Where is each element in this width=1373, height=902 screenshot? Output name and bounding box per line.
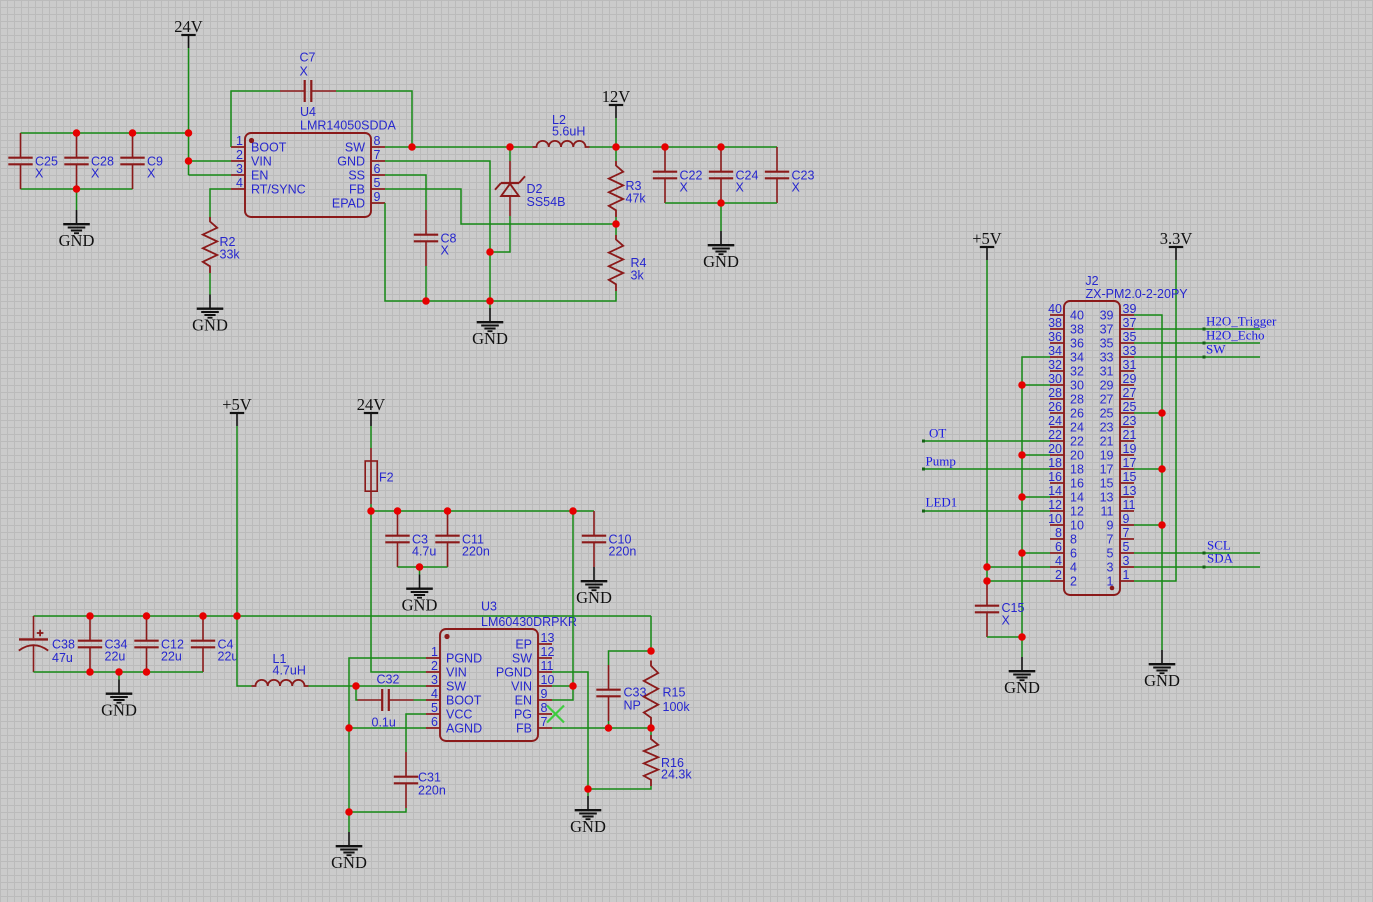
wire 12V to R3 bbox=[615, 147, 617, 161]
svg-text:+5V: +5V bbox=[222, 395, 252, 414]
svg-text:SW: SW bbox=[446, 680, 466, 694]
U4 pin 9 EPAD bbox=[371, 202, 385, 204]
J2 pin 23 bbox=[1120, 426, 1134, 428]
svg-text:9: 9 bbox=[541, 687, 548, 701]
op-amp U4 LMR14050SDDA body bbox=[245, 133, 371, 217]
capacitor C23 bbox=[765, 147, 789, 203]
J2 pin 40 bbox=[1050, 314, 1064, 316]
svg-text:SDA: SDA bbox=[1207, 551, 1234, 566]
svg-text:8: 8 bbox=[374, 134, 381, 148]
svg-text:10: 10 bbox=[541, 673, 555, 687]
wire FB net bbox=[552, 727, 651, 729]
U4 pin 2 VIN bbox=[231, 160, 245, 162]
svg-text:Pump: Pump bbox=[926, 454, 956, 469]
svg-text:PG: PG bbox=[514, 708, 532, 722]
wire L2 right lead bbox=[590, 146, 617, 148]
wire EN/VIN to 24V rail bbox=[552, 511, 573, 700]
svg-text:6: 6 bbox=[1055, 540, 1062, 554]
inductor L1 bbox=[252, 680, 309, 686]
capacitor C34 bbox=[78, 616, 102, 672]
wire +5V rail bbox=[34, 615, 652, 617]
svg-text:47u: 47u bbox=[52, 651, 73, 665]
J2 pin 24 bbox=[1050, 426, 1064, 428]
wire C7 left bbox=[231, 91, 280, 147]
svg-text:D2: D2 bbox=[527, 182, 543, 196]
junction: junction C4 top bbox=[199, 612, 207, 620]
svg-text:9: 9 bbox=[1123, 512, 1130, 526]
junction: junction C31 gnd bbox=[345, 808, 353, 816]
svg-text:11: 11 bbox=[541, 659, 554, 673]
svg-text:GND: GND bbox=[192, 316, 228, 335]
svg-text:X: X bbox=[300, 65, 309, 79]
resistor R3 bbox=[609, 161, 623, 217]
resistor R2 bbox=[203, 217, 217, 273]
junction: junction C12 top bbox=[143, 612, 151, 620]
J2 pin 3 bbox=[1120, 566, 1134, 568]
svg-text:25: 25 bbox=[1123, 400, 1137, 414]
J2 pin 29 bbox=[1120, 384, 1134, 386]
J2 pin 10 bbox=[1050, 524, 1064, 526]
svg-text:C32: C32 bbox=[377, 673, 400, 687]
svg-text:33: 33 bbox=[1123, 344, 1137, 358]
capacitor C4 bbox=[191, 616, 215, 672]
svg-text:7: 7 bbox=[374, 148, 381, 162]
junction: junction VIN tap bbox=[185, 157, 193, 165]
svg-text:VIN: VIN bbox=[511, 680, 532, 694]
J2 pin 7 bbox=[1120, 538, 1134, 540]
svg-text:17: 17 bbox=[1100, 463, 1114, 477]
wire 3.3V to pin1 bbox=[1134, 260, 1176, 581]
inductor L2 body bbox=[533, 141, 590, 147]
junction: junction VIN rail left bbox=[367, 507, 375, 515]
svg-text:X: X bbox=[736, 181, 745, 195]
svg-text:4: 4 bbox=[1070, 561, 1077, 575]
svg-text:33k: 33k bbox=[220, 248, 241, 262]
svg-text:22u: 22u bbox=[161, 650, 182, 664]
J2 pin 1 bbox=[1120, 580, 1134, 582]
svg-text:21: 21 bbox=[1100, 435, 1114, 449]
wire 12V output rail bbox=[616, 146, 777, 148]
wire output cap bottom rail bbox=[665, 202, 777, 204]
svg-text:12: 12 bbox=[1048, 498, 1062, 512]
wire C10 top bbox=[593, 510, 595, 512]
svg-text:5.6uH: 5.6uH bbox=[552, 125, 585, 139]
capacitor C25 bbox=[8, 133, 32, 189]
svg-text:BOOT: BOOT bbox=[446, 694, 482, 708]
svg-text:X: X bbox=[1002, 614, 1011, 628]
J2 pin 32 bbox=[1050, 370, 1064, 372]
wire U4 GND pin to rail bbox=[385, 161, 490, 301]
ground under C28 bbox=[63, 210, 90, 233]
J2 pin 36 bbox=[1050, 342, 1064, 344]
svg-text:SW: SW bbox=[345, 141, 365, 155]
wire AGND to net bbox=[349, 727, 426, 729]
svg-text:PGND: PGND bbox=[496, 666, 532, 680]
svg-text:30: 30 bbox=[1048, 372, 1062, 386]
wire R3 to FB node bbox=[615, 217, 617, 224]
svg-text:22: 22 bbox=[1070, 435, 1084, 449]
junction: junction output GND tap bbox=[717, 199, 725, 207]
wire C32 to BOOT bbox=[414, 699, 427, 701]
svg-text:36: 36 bbox=[1070, 337, 1084, 351]
U4 pin 3 EN bbox=[231, 174, 245, 176]
svg-text:30: 30 bbox=[1070, 379, 1084, 393]
wire J2 pin20 bbox=[1022, 454, 1050, 456]
wire FB to divider bbox=[385, 189, 616, 224]
svg-text:17: 17 bbox=[1123, 456, 1137, 470]
svg-text:38: 38 bbox=[1048, 316, 1062, 330]
svg-text:4: 4 bbox=[431, 687, 438, 701]
junction: junction pin14 bbox=[1018, 493, 1026, 501]
J2 pin 6 bbox=[1050, 552, 1064, 554]
wire net SW bbox=[1134, 356, 1260, 358]
svg-text:3k: 3k bbox=[631, 269, 645, 283]
junction: U3 pin1 marker bbox=[444, 634, 449, 639]
U3 pin 4 BOOT bbox=[426, 699, 440, 701]
junction: junction pin17 bbox=[1158, 465, 1166, 473]
svg-text:GND: GND bbox=[703, 252, 739, 271]
U3 pin 11 PGND bbox=[538, 671, 552, 673]
capacitor C31 bbox=[394, 752, 418, 808]
junction: J2 pin1 marker bbox=[1110, 586, 1115, 591]
svg-text:22u: 22u bbox=[105, 650, 126, 664]
svg-text:24V: 24V bbox=[174, 17, 203, 36]
J2 pin 18 bbox=[1050, 468, 1064, 470]
svg-text:35: 35 bbox=[1123, 330, 1137, 344]
wire 12V stem bbox=[615, 118, 617, 147]
junction: junction +5V tap bbox=[233, 612, 241, 620]
wire VIN to U4 pin2 bbox=[189, 160, 232, 162]
wire net SCL bbox=[1134, 552, 1260, 554]
svg-text:6: 6 bbox=[1070, 547, 1077, 561]
svg-text:F2: F2 bbox=[379, 471, 394, 485]
ground under C10 bbox=[581, 567, 608, 590]
wire U3 VIN right bbox=[552, 685, 573, 687]
wire VIN to U3 pin2 bbox=[371, 511, 426, 672]
svg-text:31: 31 bbox=[1123, 358, 1137, 372]
svg-text:18: 18 bbox=[1070, 463, 1084, 477]
J2 pin 35 bbox=[1120, 342, 1134, 344]
junction: junction R15 top/C33 bbox=[647, 647, 655, 655]
wire SS to C8 bbox=[385, 175, 426, 210]
junction: junction C22 top bbox=[661, 143, 669, 151]
junction: junction C8 bottom bbox=[422, 297, 430, 305]
wire J2 pin6 bbox=[1022, 552, 1050, 554]
wire J2 pin34 to gnd vertical bbox=[1022, 357, 1050, 637]
junction: junction AGND bbox=[345, 724, 353, 732]
svg-text:22u: 22u bbox=[218, 650, 239, 664]
wire J2 pin14 bbox=[1022, 496, 1050, 498]
svg-text:13: 13 bbox=[541, 631, 555, 645]
svg-text:C31: C31 bbox=[418, 771, 441, 785]
svg-text:15: 15 bbox=[1100, 477, 1114, 491]
junction: junction pin20 bbox=[1018, 451, 1026, 459]
svg-text:VIN: VIN bbox=[251, 155, 272, 169]
svg-text:9: 9 bbox=[1107, 519, 1114, 533]
svg-text:16: 16 bbox=[1048, 470, 1062, 484]
svg-text:X: X bbox=[680, 181, 689, 195]
op-amp U3 LM60430DRPKR body bbox=[440, 629, 538, 741]
junction: junction C9 top bbox=[129, 129, 137, 137]
J2 pin 28 bbox=[1050, 398, 1064, 400]
svg-text:5: 5 bbox=[1107, 547, 1114, 561]
J2 pin 30 bbox=[1050, 384, 1064, 386]
svg-text:14: 14 bbox=[1070, 491, 1084, 505]
svg-text:6: 6 bbox=[374, 162, 381, 176]
wire C33 top bbox=[609, 651, 652, 665]
U3 pin 7 FB bbox=[538, 727, 552, 729]
J2 pin 13 bbox=[1120, 496, 1134, 498]
junction: junction pin30 bbox=[1018, 381, 1026, 389]
U3 pin 10 VIN bbox=[538, 685, 552, 687]
svg-text:SS: SS bbox=[348, 169, 365, 183]
capacitor C28 bbox=[64, 133, 88, 189]
svg-text:23: 23 bbox=[1100, 421, 1114, 435]
svg-text:27: 27 bbox=[1100, 393, 1114, 407]
J2 pin 21 bbox=[1120, 440, 1134, 442]
junction: junction ground R16 bbox=[584, 785, 592, 793]
power flag +5V (bottom) bbox=[230, 413, 244, 426]
wire net H2O_Echo bbox=[1134, 342, 1260, 344]
J2 pin 17 bbox=[1120, 468, 1134, 470]
J2 pin 26 bbox=[1050, 412, 1064, 414]
svg-text:LED1: LED1 bbox=[926, 495, 958, 510]
wire C3/C11 ground rail bbox=[398, 566, 448, 568]
resistor R15 bbox=[644, 661, 658, 726]
svg-text:C7: C7 bbox=[300, 51, 316, 65]
svg-text:19: 19 bbox=[1123, 442, 1137, 456]
svg-text:ZX-PM2.0-2-20PY: ZX-PM2.0-2-20PY bbox=[1086, 287, 1189, 301]
svg-text:8: 8 bbox=[1070, 533, 1077, 547]
svg-text:33: 33 bbox=[1100, 351, 1114, 365]
U3 pin 5 VCC bbox=[426, 713, 440, 715]
svg-text:6: 6 bbox=[431, 715, 438, 729]
capacitor C24 bbox=[709, 147, 733, 203]
svg-text:PGND: PGND bbox=[446, 652, 482, 666]
svg-text:R15: R15 bbox=[663, 686, 686, 700]
J2 pin 25 bbox=[1120, 412, 1134, 414]
wire SW to D2 cathode bbox=[509, 147, 511, 161]
junction: junction C28 bottom bbox=[73, 185, 81, 193]
J2 pin 19 bbox=[1120, 454, 1134, 456]
svg-text:J2: J2 bbox=[1085, 274, 1098, 288]
junction: junction C28 top bbox=[73, 129, 81, 137]
U3 pin 6 AGND bbox=[426, 727, 440, 729]
junction: junction C12 bottom bbox=[143, 668, 151, 676]
junction: U4 pin1 marker bbox=[249, 138, 254, 143]
svg-text:26: 26 bbox=[1048, 400, 1062, 414]
wire input cap bottom rail bbox=[21, 188, 133, 190]
svg-text:GND: GND bbox=[101, 701, 137, 720]
wire L1 to SW pin bbox=[309, 685, 427, 687]
power flag +5V (right) bbox=[980, 247, 994, 260]
J2 pin 15 bbox=[1120, 482, 1134, 484]
wire VCC to C31 bbox=[406, 714, 426, 752]
junction: junction EN/VIN vertical top bbox=[569, 507, 577, 515]
svg-text:X: X bbox=[792, 181, 801, 195]
ground under output caps bbox=[708, 231, 735, 254]
svg-text:RT/SYNC: RT/SYNC bbox=[251, 183, 306, 197]
svg-text:2: 2 bbox=[1055, 568, 1062, 582]
capacitor C15 bbox=[975, 581, 999, 637]
svg-text:31: 31 bbox=[1100, 365, 1114, 379]
U3 pin 8 PG bbox=[538, 713, 552, 715]
svg-text:EPAD: EPAD bbox=[332, 197, 365, 211]
junction: junction 24V rail bbox=[185, 129, 193, 137]
svg-text:34: 34 bbox=[1070, 351, 1084, 365]
wire RT/SYNC to R2 bbox=[210, 189, 231, 217]
ground right of J2 bbox=[1149, 650, 1176, 673]
J2 pin 16 bbox=[1050, 482, 1064, 484]
svg-text:GND: GND bbox=[570, 817, 606, 836]
svg-text:2: 2 bbox=[236, 148, 243, 162]
wire C31 to GND net bbox=[349, 808, 406, 812]
J2 pin 2 bbox=[1050, 580, 1064, 582]
svg-text:X: X bbox=[441, 244, 450, 258]
junction: junction 12V node bbox=[612, 143, 620, 151]
wire J2 pin9 bbox=[1134, 524, 1162, 526]
svg-text:LMR14050SDDA: LMR14050SDDA bbox=[300, 119, 397, 133]
svg-text:100k: 100k bbox=[663, 700, 691, 714]
J2 pin 31 bbox=[1120, 370, 1134, 372]
U4 pin 1 BOOT bbox=[231, 146, 245, 148]
wire R16 top bbox=[650, 728, 652, 735]
capacitor C3 bbox=[385, 511, 409, 567]
wire bottom cap rail bbox=[34, 671, 204, 673]
U4 pin 5 FB bbox=[371, 188, 385, 190]
svg-text:11: 11 bbox=[1101, 505, 1114, 519]
wire R4/EPAD ground rail bbox=[385, 203, 616, 301]
svg-text:9: 9 bbox=[374, 190, 381, 204]
svg-text:34: 34 bbox=[1048, 344, 1062, 358]
wire GND stub C3/C11 bbox=[419, 567, 421, 575]
svg-text:27: 27 bbox=[1123, 386, 1137, 400]
junction: junction pin2 +5V bbox=[983, 577, 991, 585]
svg-text:GND: GND bbox=[1004, 678, 1040, 697]
power flag 24V (bottom) bbox=[364, 413, 378, 426]
wire F2 to VIN rail bbox=[370, 504, 372, 511]
svg-text:X: X bbox=[35, 167, 44, 181]
svg-text:13: 13 bbox=[1123, 484, 1137, 498]
junction: junction D2 anode/GND bbox=[486, 248, 494, 256]
svg-text:FB: FB bbox=[516, 722, 532, 736]
U4 pin 6 SS bbox=[371, 174, 385, 176]
svg-text:4: 4 bbox=[1055, 554, 1062, 568]
svg-text:EN: EN bbox=[251, 169, 268, 183]
svg-text:2: 2 bbox=[431, 659, 438, 673]
svg-text:29: 29 bbox=[1123, 372, 1137, 386]
U3 pin 13 EP bbox=[538, 643, 552, 645]
junction: junction C34 bottom bbox=[86, 668, 94, 676]
wire GND stub caps bbox=[118, 672, 120, 680]
svg-text:GND: GND bbox=[402, 596, 438, 615]
svg-text:7: 7 bbox=[541, 715, 548, 729]
wire C33 bottom bbox=[608, 721, 610, 728]
ground under C15 bbox=[1009, 657, 1036, 680]
U3 pin 9 EN bbox=[538, 699, 552, 701]
svg-text:24: 24 bbox=[1048, 414, 1062, 428]
svg-text:11: 11 bbox=[1123, 498, 1136, 512]
svg-text:40: 40 bbox=[1048, 302, 1062, 316]
power flag 3.3V bbox=[1169, 247, 1183, 260]
wire net Pump bbox=[922, 468, 1050, 470]
wire +5V down bbox=[236, 426, 238, 616]
ground under C3/C11 bbox=[406, 575, 433, 598]
junction: junction VIN/EN bbox=[569, 682, 577, 690]
wire R15 bottom bbox=[650, 726, 652, 729]
svg-text:38: 38 bbox=[1070, 323, 1084, 337]
svg-text:X: X bbox=[91, 167, 100, 181]
svg-text:1: 1 bbox=[236, 134, 243, 148]
svg-text:GND: GND bbox=[576, 588, 612, 607]
capacitor C10 body bbox=[582, 511, 606, 567]
J2 pin 5 bbox=[1120, 552, 1134, 554]
wire L2 left lead bbox=[510, 146, 533, 148]
wire J2 pin17 bbox=[1134, 468, 1162, 470]
svg-text:U3: U3 bbox=[481, 600, 497, 614]
svg-text:4.7u: 4.7u bbox=[412, 545, 436, 559]
svg-text:29: 29 bbox=[1100, 379, 1114, 393]
svg-text:C38: C38 bbox=[52, 638, 75, 652]
U3 pin 2 VIN bbox=[426, 671, 440, 673]
svg-text:3: 3 bbox=[431, 673, 438, 687]
svg-text:15: 15 bbox=[1123, 470, 1137, 484]
ground under R2 bbox=[197, 295, 224, 318]
svg-text:SW: SW bbox=[1206, 342, 1226, 357]
J2 pin 38 bbox=[1050, 328, 1064, 330]
junction: junction C34 top bbox=[86, 612, 94, 620]
wire 24V to F2 bbox=[370, 426, 372, 448]
J2 pin 8 bbox=[1050, 538, 1064, 540]
svg-text:24.3k: 24.3k bbox=[661, 768, 692, 782]
svg-text:5: 5 bbox=[374, 176, 381, 190]
wire C8 to rail bbox=[425, 266, 427, 301]
svg-text:7: 7 bbox=[1123, 526, 1130, 540]
wire PGND to ground rail bbox=[552, 672, 588, 789]
wire PGND/AGND ground net bbox=[349, 658, 426, 832]
svg-text:220n: 220n bbox=[609, 545, 637, 559]
svg-text:16: 16 bbox=[1070, 477, 1084, 491]
svg-text:5: 5 bbox=[1123, 540, 1130, 554]
svg-text:3: 3 bbox=[1107, 561, 1114, 575]
svg-text:VCC: VCC bbox=[446, 708, 472, 722]
svg-text:1: 1 bbox=[1123, 568, 1130, 582]
J2 pin 39 bbox=[1120, 314, 1134, 316]
wire C32 left bbox=[356, 686, 358, 700]
svg-text:OT: OT bbox=[929, 426, 946, 441]
svg-text:2: 2 bbox=[1070, 575, 1077, 589]
junction: junction SW/C32 bbox=[352, 682, 360, 690]
junction: junction FB divider bbox=[612, 220, 620, 228]
resistor R4 bbox=[609, 235, 623, 291]
capacitor C33 bbox=[596, 665, 620, 721]
wire J2 pin2 to +5V bbox=[987, 580, 1050, 582]
junction: junction pin4 +5V bbox=[983, 563, 991, 571]
capacitor C7 body bbox=[280, 80, 336, 102]
U3 pin 1 PGND bbox=[426, 657, 440, 659]
U4 pin 7 GND bbox=[371, 160, 385, 162]
wire J2 pin39 gnd vertical bbox=[1134, 315, 1162, 650]
J2 pin 33 bbox=[1120, 356, 1134, 358]
U4 pin 8 SW bbox=[371, 146, 385, 148]
J2 pin 14 bbox=[1050, 496, 1064, 498]
capacitor C38 47u (polarized) bbox=[19, 616, 48, 672]
svg-text:10: 10 bbox=[1070, 519, 1084, 533]
svg-text:39: 39 bbox=[1100, 309, 1114, 323]
capacitor C9 bbox=[120, 133, 144, 189]
connector J2 ZX-PM2.0-2-20PY body bbox=[1064, 301, 1120, 595]
J2 pin 11 bbox=[1120, 510, 1134, 512]
